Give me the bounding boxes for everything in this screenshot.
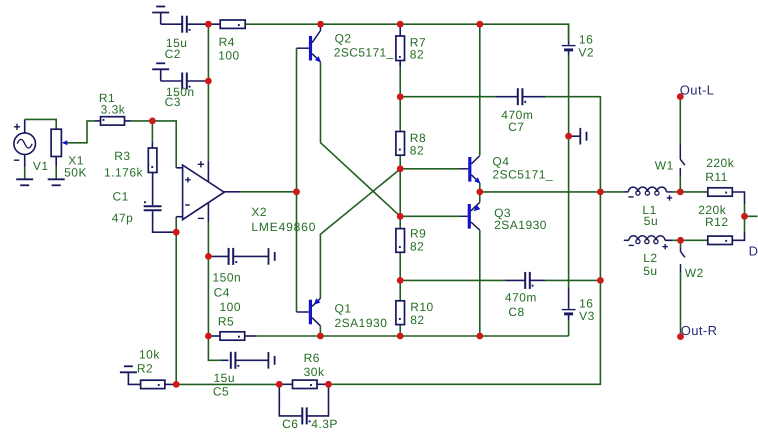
junction R10 bottom on -V rail xyxy=(397,333,404,340)
svg-text:470m: 470m xyxy=(505,291,537,305)
resistor R2 xyxy=(141,380,177,388)
svg-text:L2: L2 xyxy=(643,251,657,265)
svg-text:C7: C7 xyxy=(508,120,524,134)
label L2 xyxy=(643,251,657,265)
junction C3 / V+ column xyxy=(205,78,212,85)
label R10 value 82 xyxy=(410,313,424,327)
label L1 value 5u xyxy=(644,214,658,228)
ground at V1 xyxy=(16,179,33,185)
label X2 value LME49860 xyxy=(251,220,316,234)
wire W1 lower xyxy=(679,176,681,192)
svg-text:R5: R5 xyxy=(218,315,234,329)
wire Q1 collector drop xyxy=(319,326,321,336)
label R2 value 10k xyxy=(139,347,160,361)
svg-text:R2: R2 xyxy=(137,361,153,375)
label V2 value 16 xyxy=(579,32,593,46)
svg-text:2SC5171_: 2SC5171_ xyxy=(492,168,553,182)
label L2 value 5u xyxy=(643,264,657,278)
junction L2/W2/R12 node xyxy=(677,237,684,244)
svg-text:LME49860: LME49860 xyxy=(251,220,316,234)
label R2 xyxy=(137,361,153,375)
resistor R7 xyxy=(396,24,405,66)
label R8 xyxy=(410,131,426,145)
label R1 value 3.3k xyxy=(101,103,126,117)
svg-text:C1: C1 xyxy=(113,190,129,204)
wire Q3 emitter rise xyxy=(479,192,481,203)
svg-text:47p: 47p xyxy=(112,211,134,225)
svg-text:82: 82 xyxy=(410,240,424,254)
svg-text:82: 82 xyxy=(410,48,424,62)
resistor R9 xyxy=(396,229,405,253)
node label Out-R xyxy=(681,323,718,338)
label V3 xyxy=(579,309,595,323)
wire R9 to R10 column xyxy=(399,252,401,300)
ground at C5 xyxy=(268,352,274,369)
svg-text:V3: V3 xyxy=(579,309,595,323)
svg-text:C2: C2 xyxy=(165,47,181,61)
wire L2 right to R12 xyxy=(665,239,708,241)
label R6 xyxy=(304,351,320,365)
ground at X1 xyxy=(48,179,65,185)
svg-text:C3: C3 xyxy=(165,95,181,109)
label C6 value 4.3P xyxy=(311,417,338,431)
svg-text:5u: 5u xyxy=(643,264,657,278)
wire R6 right to output loop riser xyxy=(329,97,601,385)
wire top +V rail xyxy=(245,24,568,41)
svg-text:2SA1930: 2SA1930 xyxy=(494,218,547,232)
wire C8 bootstrap rail left xyxy=(400,279,505,281)
ground at V2 xyxy=(569,128,587,145)
label X1 xyxy=(68,154,84,168)
L1 minus mark xyxy=(628,196,633,198)
label L1 xyxy=(642,203,656,217)
svg-text:15u: 15u xyxy=(214,371,236,385)
label C1 xyxy=(113,190,129,204)
label R9 xyxy=(410,227,426,241)
svg-text:Q2: Q2 xyxy=(335,32,352,46)
wire bottom -V rail xyxy=(257,335,569,337)
capacitor C1 xyxy=(144,201,173,232)
junction C8 rail / riser xyxy=(597,277,604,284)
wire R10 bottom lead xyxy=(399,325,401,336)
label Q1 xyxy=(335,302,352,316)
label R12 value 220k xyxy=(698,203,727,217)
label V2 xyxy=(578,45,594,59)
label R11 xyxy=(705,170,728,184)
label Q2 xyxy=(335,32,352,46)
resistor R4 xyxy=(220,20,245,28)
V1 minus mark xyxy=(14,159,19,161)
label R5 xyxy=(218,315,234,329)
capacitor C7 xyxy=(496,88,545,105)
label W2 xyxy=(685,266,704,280)
L2 plus mark xyxy=(663,244,668,249)
wire op-amp output xyxy=(240,191,297,193)
switch W2 xyxy=(681,248,685,272)
label C3 xyxy=(165,95,181,109)
wire Q3 collector drop xyxy=(479,230,481,336)
label Q4 xyxy=(492,154,509,168)
inductor L1 xyxy=(623,187,672,195)
label X1 value 50K xyxy=(64,166,87,180)
label R7 xyxy=(410,35,426,49)
svg-text:1.176k: 1.176k xyxy=(104,165,144,179)
junction V2/V3/ground xyxy=(565,133,572,140)
svg-text:2SC5171_: 2SC5171_ xyxy=(334,46,394,60)
ground at C3 xyxy=(152,63,182,81)
junction R5 / V- column xyxy=(205,333,212,340)
op-amp V+ pin mark xyxy=(198,161,204,167)
node label D xyxy=(749,243,758,258)
svg-text:30k: 30k xyxy=(304,365,325,379)
label C7 value 470m xyxy=(501,108,533,122)
label C2 value 15u xyxy=(166,36,188,50)
junction output rail / riser xyxy=(597,189,604,196)
wire output rail xyxy=(480,191,624,193)
svg-text:16: 16 xyxy=(579,32,593,46)
junction C1 / op-amp inverting input xyxy=(173,229,180,236)
transistor Q4 xyxy=(460,156,481,184)
capacitor C2 xyxy=(182,16,220,33)
capacitor C5 xyxy=(221,352,268,369)
node Out-R terminal xyxy=(677,333,684,340)
svg-text:C5: C5 xyxy=(213,385,229,399)
label C2 xyxy=(165,47,181,61)
svg-text:R3: R3 xyxy=(114,149,130,163)
label C4 xyxy=(214,285,230,299)
junction R9/R10/C8 node xyxy=(397,277,404,284)
label R11 value 220k xyxy=(706,156,735,170)
wire feedback column (op-amp -in to R2/R6 row) xyxy=(175,217,177,385)
wire Q4 base lead xyxy=(400,168,460,170)
label Q4 value 2SC5171_ xyxy=(492,168,553,182)
label R3 xyxy=(114,149,130,163)
switch W1 xyxy=(680,144,685,177)
label R5 value 100 xyxy=(220,300,242,314)
svg-text:R11: R11 xyxy=(705,170,728,184)
label R10 xyxy=(410,300,434,314)
L2 minus mark xyxy=(629,244,634,246)
svg-text:Out-L: Out-L xyxy=(680,83,715,98)
op-amp inverting input mark xyxy=(185,204,190,206)
svg-text:Q1: Q1 xyxy=(335,302,352,316)
svg-text:R10: R10 xyxy=(410,300,434,314)
capacitor C4 xyxy=(208,248,268,265)
svg-text:R12: R12 xyxy=(705,215,729,229)
label R9 value 82 xyxy=(410,240,424,254)
wire Q2 emitter to Q3 base node xyxy=(321,63,401,217)
svg-text:50K: 50K xyxy=(64,166,87,180)
junction R7 top on +V rail xyxy=(397,21,404,28)
svg-text:Q4: Q4 xyxy=(492,154,509,168)
op-amp non-inverting input mark xyxy=(185,177,190,182)
junction Q4 base node xyxy=(397,165,404,172)
label C1 value 47p xyxy=(112,211,134,225)
op-amp V- pin mark xyxy=(198,217,204,219)
transistor Q2 xyxy=(297,24,322,62)
svg-text:W1: W1 xyxy=(655,159,674,173)
junction output emitters node xyxy=(476,189,483,196)
junction C2 / V+ column xyxy=(205,21,212,28)
transistor Q1 xyxy=(297,298,321,326)
wire Q1 emitter to Q4 base node xyxy=(320,169,400,299)
wire Q4 collector to +V rail xyxy=(479,24,481,155)
svg-text:2SA1930: 2SA1930 xyxy=(335,316,388,330)
svg-text:R9: R9 xyxy=(410,227,426,241)
wire Q3 base lead xyxy=(400,215,460,217)
wire V2 negative to ground dot xyxy=(568,55,570,136)
resistor R12 xyxy=(708,232,745,245)
svg-text:100: 100 xyxy=(218,49,240,63)
junction L1/W1/R11 node xyxy=(677,189,684,196)
wire Q4 emitter drop xyxy=(479,183,481,192)
junction op-amp output node xyxy=(293,188,300,195)
battery V3 xyxy=(562,288,576,321)
wire C8 bootstrap rail right xyxy=(545,279,600,281)
svg-text:R6: R6 xyxy=(304,351,320,365)
svg-text:4.3P: 4.3P xyxy=(311,417,338,431)
inductor L2 xyxy=(624,236,672,244)
resistor R5 xyxy=(208,332,256,340)
wire driver base column (op-amp out to Q2/Q1 bases) xyxy=(296,48,298,312)
svg-text:Out-R: Out-R xyxy=(681,323,718,338)
label C3 value 150n xyxy=(166,85,195,99)
capacitor C6 xyxy=(279,386,328,424)
node Out-L terminal xyxy=(677,93,684,100)
wire R1 to input node xyxy=(131,121,176,168)
label R4 xyxy=(219,35,235,49)
svg-text:C4: C4 xyxy=(214,285,230,299)
potentiometer X1 xyxy=(51,121,100,179)
junction R6 right xyxy=(325,381,332,388)
junction Q4 collector on +V rail xyxy=(476,21,483,28)
wire R8 to R9 column xyxy=(399,155,401,228)
wire R11/R12 junction riser xyxy=(744,204,746,232)
resistor R6 xyxy=(279,380,328,388)
svg-text:R4: R4 xyxy=(219,35,235,49)
wire V3 negative to -V rail xyxy=(568,320,570,336)
junction Q3 base node xyxy=(397,213,404,220)
junction R7/R8/C7 node xyxy=(397,93,404,100)
label Q3 xyxy=(494,206,511,220)
svg-text:X2: X2 xyxy=(251,205,267,219)
svg-text:V2: V2 xyxy=(578,45,594,59)
svg-text:82: 82 xyxy=(410,144,424,158)
svg-text:D: D xyxy=(749,243,758,258)
wire ground dot to V3 positive xyxy=(568,136,570,287)
label R4 value 100 xyxy=(218,49,240,63)
label X2 xyxy=(251,205,267,219)
junction Q2 collector on +V rail xyxy=(317,21,324,28)
label R8 value 82 xyxy=(410,144,424,158)
resistor R8 xyxy=(396,132,405,156)
transistor Q3 xyxy=(460,202,480,230)
junction R11/R12 node D xyxy=(741,213,748,220)
wire V2 positive stub xyxy=(568,24,570,41)
op-amp U1 X2 xyxy=(176,161,240,222)
label C5 value 15u xyxy=(214,371,236,385)
wire R7 bottom lead xyxy=(399,64,401,97)
svg-text:3.3k: 3.3k xyxy=(101,103,126,117)
wire C7 left to R7 bottom node xyxy=(400,96,495,98)
label Q3 value 2SA1930 xyxy=(494,218,547,232)
node label Out-L xyxy=(680,83,715,98)
svg-text:100: 100 xyxy=(220,300,242,314)
wire input node to R3 xyxy=(151,121,153,143)
resistor R11 xyxy=(708,188,745,204)
label C8 xyxy=(508,305,524,319)
capacitor C8 xyxy=(505,272,545,289)
wire W2 upper xyxy=(680,240,682,248)
junction R2 / feedback node xyxy=(173,381,180,388)
svg-text:C6: C6 xyxy=(282,417,298,431)
svg-text:150n: 150n xyxy=(213,271,242,285)
resistor R3 xyxy=(148,143,157,206)
label R1 xyxy=(99,91,115,105)
label Q2 value 2SC5171_ xyxy=(334,46,394,60)
wire W2 lower to Out-R xyxy=(680,272,682,336)
wire output node to R11 xyxy=(672,191,708,193)
svg-text:C8: C8 xyxy=(508,305,524,319)
wire node D stub xyxy=(745,215,758,217)
svg-text:V1: V1 xyxy=(33,159,49,173)
voltage source V1 xyxy=(14,119,56,179)
label Q1 value 2SA1930 xyxy=(335,316,388,330)
wire W1 upper xyxy=(679,97,681,144)
label C8 value 470m xyxy=(505,291,537,305)
label R6 value 30k xyxy=(304,365,325,379)
wire V- supply column lower (op-amp V- pin to C4, R5, C5) xyxy=(208,222,221,360)
svg-text:5u: 5u xyxy=(644,214,658,228)
resistor R1 xyxy=(101,117,132,125)
label C5 xyxy=(213,385,229,399)
junction R6 left xyxy=(276,381,283,388)
label C4 value 150n xyxy=(213,271,242,285)
svg-text:W2: W2 xyxy=(685,266,704,280)
resistor R10 xyxy=(396,301,405,325)
label R7 value 82 xyxy=(410,48,424,62)
label V3 value 16 xyxy=(579,297,593,311)
junction Q3 collector on -V rail xyxy=(476,333,483,340)
junction Q1 collector on -V rail xyxy=(317,333,324,340)
label W1 xyxy=(655,159,674,173)
ground at C4 xyxy=(269,248,275,265)
label V1 xyxy=(33,159,49,173)
ground at R2 xyxy=(120,366,141,384)
ground at C2 xyxy=(152,7,182,25)
L1 plus mark xyxy=(667,195,672,200)
label C7 xyxy=(508,120,524,134)
wire feedback bottom row to R6 xyxy=(176,383,279,385)
wire V+ supply column upper (C2/C3 node to op-amp V+ pin) xyxy=(207,24,209,161)
svg-text:220k: 220k xyxy=(706,156,735,170)
junction R1 / R3 input node xyxy=(149,118,156,125)
label R3 value 1.176k xyxy=(104,165,144,179)
V1 plus mark xyxy=(14,124,20,130)
capacitor C3 xyxy=(182,73,208,90)
label R12 xyxy=(705,215,729,229)
label C6 xyxy=(282,417,298,431)
svg-text:82: 82 xyxy=(410,313,424,327)
junction C4 / V- column xyxy=(205,253,212,260)
battery V2 xyxy=(562,41,576,55)
svg-text:10k: 10k xyxy=(139,347,160,361)
wire R7 node to R8 xyxy=(399,97,401,132)
